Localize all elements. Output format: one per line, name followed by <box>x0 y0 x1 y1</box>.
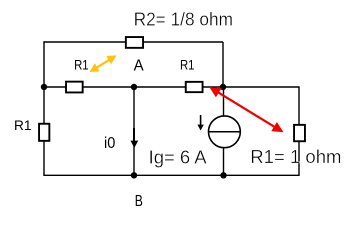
resistor R2 <box>126 37 143 48</box>
wire middle horizontal <box>44 86 299 88</box>
svg-text:R2= 1/8 ohm: R2= 1/8 ohm <box>134 8 233 29</box>
svg-text:B: B <box>135 193 143 210</box>
resistor R1 right horizontal <box>186 82 203 92</box>
node A dot <box>131 84 137 90</box>
node dot mid-right <box>220 84 226 90</box>
svg-text:R1: R1 <box>180 56 195 72</box>
svg-text:A: A <box>134 57 144 74</box>
Ig direction arrow <box>200 115 202 125</box>
resistor R1 right vertical <box>294 125 305 141</box>
resistor R1 left vertical <box>39 124 49 141</box>
yellow double arrow <box>89 55 116 72</box>
svg-text:i0: i0 <box>104 135 115 152</box>
i0 current arrowhead <box>131 141 139 148</box>
svg-text:R1: R1 <box>74 56 89 72</box>
resistor R1 left horizontal <box>66 82 83 93</box>
svg-text:R1= 1 ohm: R1= 1 ohm <box>250 146 341 167</box>
wire right vertical <box>298 86 300 176</box>
wire top-loop right vertical <box>222 42 224 87</box>
svg-text:Ig= 6 A: Ig= 6 A <box>149 146 208 167</box>
wire current source branch <box>223 87 225 175</box>
node dot left-middle <box>41 84 47 90</box>
i0 current arrow shaft <box>133 128 135 141</box>
node dot bottom i0 <box>131 172 137 178</box>
current source Ig circle <box>209 116 241 148</box>
wire top <box>44 41 223 43</box>
node dot bottom source <box>220 172 226 178</box>
wire left vertical <box>43 41 45 176</box>
red double arrow <box>209 87 283 132</box>
wire bottom <box>44 174 299 176</box>
wire i0 branch <box>133 87 135 175</box>
current source bar <box>209 131 241 133</box>
svg-text:R1: R1 <box>14 117 32 133</box>
